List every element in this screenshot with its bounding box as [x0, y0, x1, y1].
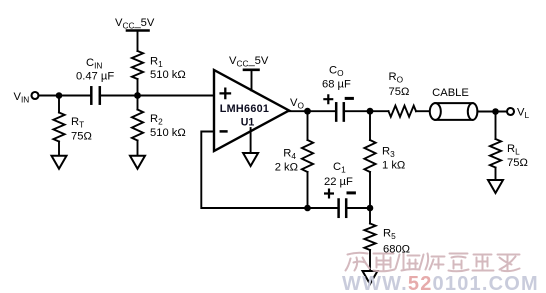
- junction RL: [492, 108, 499, 115]
- svg-text:VCC_5V: VCC_5V: [229, 55, 269, 68]
- pin + (non-inverting): [221, 89, 230, 98]
- label U1: [241, 117, 255, 129]
- svg-text:510 kΩ: 510 kΩ: [150, 127, 186, 139]
- wire VCC to op-amp top: [251, 70, 253, 91]
- power VCC_5V (R1 supply): [115, 17, 155, 31]
- resistor RT: [53, 96, 64, 156]
- svg-text:LMH6601: LMH6601: [220, 103, 270, 115]
- svg-text:75Ω: 75Ω: [71, 131, 92, 143]
- terminal VIN: [32, 92, 39, 99]
- resistor R2: [132, 96, 143, 156]
- wire CIN to op-amp + input: [100, 95, 213, 97]
- svg-text:22 µF: 22 µF: [324, 176, 353, 188]
- ground RT: [52, 156, 67, 169]
- wire RO to cable: [416, 110, 430, 112]
- wire op-amp output to CO: [288, 110, 336, 112]
- wire inverting input feedback (stub + down + along bottom): [201, 132, 338, 209]
- polarity C1: [325, 190, 354, 198]
- op-amp U1: [214, 70, 289, 151]
- value label R5: [383, 228, 410, 256]
- value label RT: [71, 116, 92, 143]
- label CABLE: [432, 87, 469, 99]
- capacitor CIN: [91, 87, 100, 103]
- wire op-amp bottom to ground: [250, 128, 252, 153]
- junction R1 R2 input: [134, 92, 141, 99]
- watermark chinese characters: [346, 253, 520, 272]
- ground RL: [488, 180, 503, 193]
- value label CO: [322, 65, 351, 91]
- junction VO: [304, 108, 311, 115]
- resistor R4: [302, 111, 313, 208]
- ground R5: [363, 271, 378, 284]
- ground op-amp: [243, 153, 258, 166]
- value label C1: [324, 161, 353, 188]
- cable (coax) symbol: [430, 103, 478, 120]
- value label R3: [382, 146, 405, 172]
- svg-text:WWW.520101.COM: WWW.520101.COM: [342, 273, 539, 293]
- capacitor C1: [339, 200, 347, 217]
- value label R2: [150, 113, 186, 139]
- svg-text:1 kΩ: 1 kΩ: [382, 160, 405, 172]
- svg-text:68 µF: 68 µF: [322, 79, 351, 91]
- value label RL: [507, 143, 528, 169]
- resistor RO: [389, 106, 417, 117]
- svg-text:75Ω: 75Ω: [389, 86, 410, 98]
- terminal VL: [507, 108, 514, 115]
- wire VIN to CIN: [38, 95, 91, 97]
- svg-text:2 kΩ: 2 kΩ: [275, 162, 298, 174]
- svg-text:CABLE: CABLE: [432, 87, 469, 99]
- polarity CO: [324, 95, 352, 103]
- node VO label: [290, 97, 304, 110]
- pin - (inverting): [221, 130, 227, 133]
- resistor RL: [490, 112, 501, 181]
- svg-text:75Ω: 75Ω: [507, 157, 528, 169]
- label LMH6601: [220, 103, 270, 115]
- resistor R5: [364, 208, 375, 271]
- svg-text:0.47 µF: 0.47 µF: [76, 71, 114, 83]
- value label R1: [150, 56, 186, 82]
- wire R1 to junction: [137, 79, 139, 96]
- svg-text:510 kΩ: 510 kΩ: [150, 69, 186, 81]
- junction input/RT: [56, 92, 63, 99]
- node VL label: [517, 107, 529, 120]
- svg-text:VCC_5V: VCC_5V: [115, 17, 155, 30]
- junction R3/R5/C1: [367, 205, 374, 212]
- value label R4: [275, 148, 298, 174]
- resistor R3: [364, 111, 375, 208]
- junction R3 top: [367, 108, 374, 115]
- svg-text:U1: U1: [241, 117, 255, 129]
- wire cable to VL: [477, 111, 507, 113]
- power VCC_5V (op-amp supply): [229, 55, 269, 70]
- value label CIN: [76, 57, 114, 83]
- wire CO to R3/RO: [344, 110, 389, 112]
- ground R2: [130, 156, 145, 169]
- junction R4 bottom: [304, 205, 311, 212]
- value label RO: [389, 71, 410, 98]
- capacitor CO: [336, 103, 344, 120]
- wire VCC to R1: [137, 31, 139, 52]
- wire C1 to junction: [346, 207, 370, 209]
- resistor R1: [132, 51, 143, 79]
- node VIN label: [14, 91, 30, 104]
